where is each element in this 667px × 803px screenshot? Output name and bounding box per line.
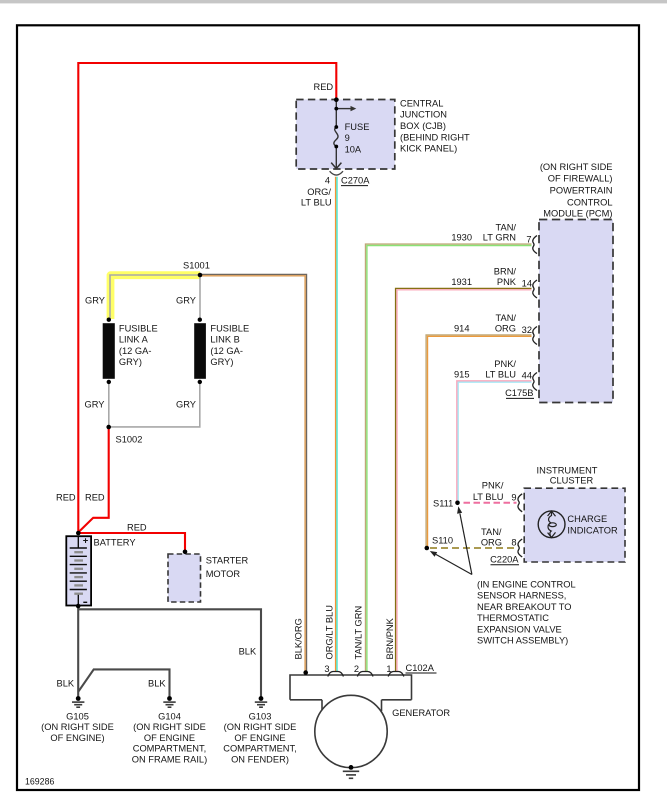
- svg-text:THERMOSTATIC: THERMOSTATIC: [477, 613, 549, 623]
- svg-text:1930: 1930: [451, 233, 472, 243]
- svg-text:OF FIREWALL): OF FIREWALL): [548, 174, 613, 184]
- svg-text:+: +: [83, 535, 89, 546]
- svg-text:COMPARTMENT,: COMPARTMENT,: [223, 744, 297, 754]
- svg-text:GRY: GRY: [176, 400, 196, 410]
- svg-text:INDICATOR: INDICATOR: [567, 525, 618, 535]
- svg-text:PNK/: PNK/: [482, 481, 504, 491]
- svg-text:S1002: S1002: [116, 435, 143, 445]
- svg-text:CENTRAL: CENTRAL: [400, 98, 443, 108]
- svg-text:GRY): GRY): [119, 357, 142, 367]
- svg-text:8: 8: [511, 538, 516, 548]
- svg-text:(ON RIGHT SIDE: (ON RIGHT SIDE: [41, 722, 114, 732]
- svg-text:C270A: C270A: [341, 176, 370, 186]
- svg-text:MODULE (PCM): MODULE (PCM): [543, 209, 612, 219]
- svg-text:LT BLU: LT BLU: [485, 370, 516, 380]
- svg-text:C220A: C220A: [490, 555, 519, 565]
- svg-text:LT GRN: LT GRN: [483, 233, 516, 243]
- svg-text:OF ENGINE: OF ENGINE: [144, 733, 195, 743]
- svg-text:COMPARTMENT,: COMPARTMENT,: [133, 744, 207, 754]
- svg-text:LT BLU: LT BLU: [473, 492, 504, 502]
- svg-text:C175B: C175B: [505, 388, 533, 398]
- svg-text:EXPANSION VALVE: EXPANSION VALVE: [477, 624, 562, 634]
- svg-text:KICK PANEL): KICK PANEL): [400, 144, 457, 154]
- svg-text:POWERTRAIN: POWERTRAIN: [550, 186, 613, 196]
- svg-text:(ON RIGHT SIDE: (ON RIGHT SIDE: [540, 162, 613, 172]
- svg-text:ORG/: ORG/: [307, 187, 331, 197]
- svg-text:G105: G105: [66, 712, 89, 722]
- svg-text:RED: RED: [314, 82, 334, 92]
- svg-text:GRY: GRY: [85, 400, 105, 410]
- svg-text:7: 7: [526, 234, 531, 244]
- svg-text:BOX (CJB): BOX (CJB): [400, 121, 446, 131]
- svg-text:169286: 169286: [25, 777, 54, 787]
- svg-text:PNK/: PNK/: [494, 359, 516, 369]
- svg-text:FUSE: FUSE: [345, 122, 370, 132]
- svg-text:BRN/: BRN/: [494, 267, 517, 277]
- svg-text:1: 1: [386, 664, 391, 674]
- svg-text:SENSOR HARNESS,: SENSOR HARNESS,: [477, 591, 566, 601]
- svg-text:CHARGE: CHARGE: [567, 514, 607, 524]
- svg-text:4: 4: [325, 176, 330, 186]
- svg-text:BRN/PNK: BRN/PNK: [385, 617, 395, 659]
- svg-text:PNK: PNK: [497, 277, 517, 287]
- svg-text:1931: 1931: [451, 277, 472, 287]
- svg-text:S1001: S1001: [183, 261, 210, 271]
- svg-text:44: 44: [522, 371, 532, 381]
- svg-text:FUSIBLE: FUSIBLE: [210, 324, 249, 334]
- svg-text:C102A: C102A: [406, 663, 435, 673]
- svg-text:ORG: ORG: [495, 324, 516, 334]
- svg-text:GRY: GRY: [85, 296, 105, 306]
- svg-text:S111: S111: [433, 499, 453, 509]
- svg-text:CLUSTER: CLUSTER: [550, 475, 594, 485]
- svg-text:LINK A: LINK A: [119, 335, 149, 345]
- svg-text:9: 9: [345, 133, 350, 143]
- svg-text:(IN ENGINE CONTROL: (IN ENGINE CONTROL: [477, 580, 576, 590]
- svg-text:INSTRUMENT: INSTRUMENT: [537, 465, 598, 475]
- svg-text:CONTROL: CONTROL: [567, 197, 612, 207]
- svg-text:G104: G104: [158, 712, 181, 722]
- svg-text:LT BLU: LT BLU: [301, 198, 332, 208]
- svg-text:(12 GA-: (12 GA-: [119, 346, 152, 356]
- svg-text:(BEHIND RIGHT: (BEHIND RIGHT: [400, 132, 470, 142]
- svg-text:9: 9: [511, 493, 516, 503]
- svg-text:FUSIBLE: FUSIBLE: [119, 324, 158, 334]
- svg-text:ORG/LT BLU: ORG/LT BLU: [324, 605, 334, 659]
- svg-text:SWITCH ASSEMBLY): SWITCH ASSEMBLY): [477, 636, 568, 646]
- svg-text:TAN/: TAN/: [481, 527, 502, 537]
- svg-text:RED: RED: [56, 493, 76, 503]
- svg-text:3: 3: [324, 664, 329, 674]
- svg-text:TAN/LT GRN: TAN/LT GRN: [353, 606, 363, 660]
- svg-text:MOTOR: MOTOR: [206, 569, 241, 579]
- svg-text:GRY): GRY): [210, 357, 233, 367]
- svg-text:LINK B: LINK B: [210, 335, 239, 345]
- svg-text:10A: 10A: [345, 144, 362, 154]
- svg-text:(12 GA-: (12 GA-: [210, 346, 243, 356]
- svg-text:BATTERY: BATTERY: [94, 538, 136, 548]
- svg-text:G103: G103: [249, 712, 272, 722]
- svg-text:RED: RED: [85, 493, 105, 503]
- svg-text:914: 914: [454, 324, 470, 334]
- svg-text:OF ENGINE): OF ENGINE): [50, 733, 104, 743]
- svg-text:TAN/: TAN/: [496, 222, 517, 232]
- svg-text:GENERATOR: GENERATOR: [392, 708, 450, 718]
- svg-text:(ON RIGHT SIDE: (ON RIGHT SIDE: [133, 722, 206, 732]
- svg-text:(ON RIGHT SIDE: (ON RIGHT SIDE: [224, 722, 297, 732]
- svg-text:JUNCTION: JUNCTION: [400, 110, 447, 120]
- svg-text:NEAR BREAKOUT TO: NEAR BREAKOUT TO: [477, 602, 572, 612]
- svg-text:ORG: ORG: [481, 538, 502, 548]
- svg-text:TAN/: TAN/: [496, 313, 517, 323]
- svg-text:915: 915: [454, 370, 470, 380]
- svg-text:BLK/ORG: BLK/ORG: [294, 618, 304, 659]
- svg-text:2: 2: [354, 664, 359, 674]
- svg-text:STARTER: STARTER: [206, 556, 249, 566]
- svg-text:BLK: BLK: [239, 647, 257, 657]
- svg-text:GRY: GRY: [176, 296, 196, 306]
- svg-text:OF ENGINE: OF ENGINE: [234, 733, 285, 743]
- svg-text:BLK: BLK: [148, 679, 166, 689]
- svg-text:32: 32: [522, 325, 532, 335]
- svg-text:RED: RED: [127, 523, 147, 533]
- svg-text:BLK: BLK: [57, 679, 75, 689]
- svg-text:ON FRAME RAIL): ON FRAME RAIL): [132, 754, 207, 764]
- svg-text:14: 14: [522, 279, 532, 289]
- svg-text:ON FENDER): ON FENDER): [231, 754, 289, 764]
- svg-text:S110: S110: [432, 536, 453, 546]
